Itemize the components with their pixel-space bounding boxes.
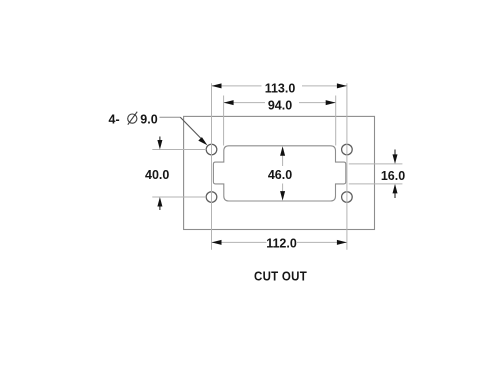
- svg-text:112.0: 112.0: [266, 236, 297, 250]
- hole top-left: [206, 144, 217, 155]
- svg-text:40.0: 40.0: [145, 168, 169, 182]
- dimension 40.0 arrow bottom: [157, 197, 162, 210]
- svg-text:9.0: 9.0: [140, 112, 157, 126]
- hole bottom-left: [206, 192, 217, 203]
- extension line 16.0 top (notch top edge): [349, 163, 403, 165]
- extension line 16.0 bottom (notch bottom edge): [349, 183, 403, 185]
- extension line right cutout edge (94.0): [335, 96, 337, 146]
- dimension 113.0 line: [212, 83, 347, 88]
- extension line through right holes (vertical): [346, 83, 348, 250]
- dimension 40.0 arrow top: [157, 137, 162, 150]
- dimension 16.0 arrow top: [393, 150, 398, 164]
- svg-text:46.0: 46.0: [268, 168, 292, 182]
- dimension 16.0 arrow bottom: [393, 184, 398, 198]
- svg-text:16.0: 16.0: [381, 169, 405, 183]
- svg-text:94.0: 94.0: [268, 98, 292, 112]
- dimension 46.0 line (vertical inside cutout): [280, 146, 285, 200]
- svg-text:4-: 4-: [109, 112, 120, 126]
- leader line to top-left hole: [160, 117, 208, 145]
- dimension 112.0 line: [212, 240, 347, 245]
- hole callout diameter symbol: [128, 112, 137, 125]
- extension line 40.0 top (from top-left hole): [152, 149, 206, 151]
- extension line through left holes (vertical): [211, 83, 213, 250]
- extension line 40.0 bottom (from bottom-left hole): [152, 196, 206, 198]
- panel outline rectangle: [184, 116, 375, 229]
- hole bottom-right: [342, 192, 353, 203]
- dimension 94.0 line: [224, 100, 336, 105]
- hole top-right: [342, 144, 353, 155]
- extension line left cutout edge (94.0): [223, 96, 225, 146]
- svg-text:113.0: 113.0: [265, 82, 296, 96]
- cutout outline: [213, 146, 345, 201]
- svg-text:CUT OUT: CUT OUT: [254, 269, 307, 284]
